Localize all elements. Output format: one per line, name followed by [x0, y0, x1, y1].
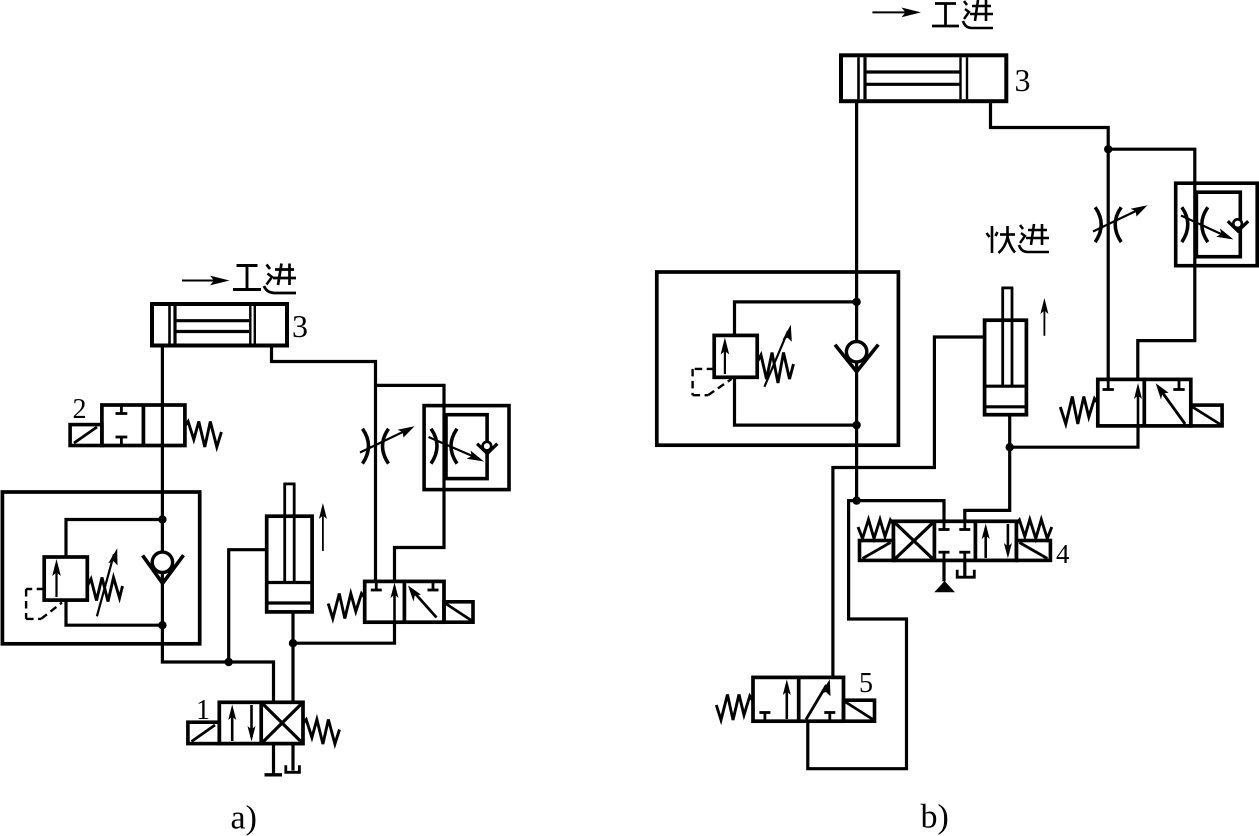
boxed check valve fig b seat: [1228, 221, 1248, 231]
wire: branch to one-way throttle box fig a: [376, 385, 445, 582]
valve 1 crossed X: [261, 702, 303, 743]
valve 2 body: [102, 405, 185, 446]
valve 1 body: [219, 702, 303, 743]
svg-text:3: 3: [1015, 62, 1031, 98]
valve 5 pilot actuator box: [844, 700, 875, 721]
throttle valve fig b arcs: [1095, 207, 1101, 242]
valve 4 right spring: [1016, 520, 1051, 539]
junction dot below small cylinder fig b: [1006, 443, 1014, 451]
relief valve square fig b: [714, 335, 757, 377]
check valve fig b ball: [846, 342, 866, 362]
wire: branch to one-way throttle box fig b: [1108, 149, 1195, 379]
throttle valve fig a arcs: [363, 429, 369, 464]
valve 5 blocked stub left: [764, 713, 767, 722]
wire: relief box down, right to valve 1: [162, 625, 273, 702]
wire: small cylinder A left port: [229, 550, 267, 662]
svg-text:a): a): [231, 800, 257, 836]
wire: small cylinder B left port to valve 5: [833, 337, 985, 677]
wire: valve 2 down to relief box: [161, 446, 164, 520]
junction dot top of loop fig b: [852, 298, 860, 306]
small cylinder fig b body: [985, 320, 1027, 415]
valve 4 left pilot box: [860, 541, 894, 561]
junction dot top of loop fig a: [158, 515, 166, 523]
wire: small cylinder B bottom port: [965, 415, 1010, 522]
pilot valve B blocked stub right: [1178, 379, 1181, 389]
valve 5 body: [753, 677, 844, 721]
svg-text:b): b): [921, 799, 949, 836]
small cylinder fig a rod: [283, 484, 295, 582]
check valve fig a ball: [152, 552, 172, 572]
wire: supply dot around to valve 5 bottom: [808, 501, 907, 769]
cylinder 3 fig a body: [152, 304, 287, 346]
valve 5 crossed arrow right square: [806, 685, 827, 720]
boxed throttle fig a adjust arrow: [429, 437, 478, 458]
wire: cylinder A right port to throttle line: [272, 346, 376, 583]
boxed check valve fig a ball: [483, 442, 492, 451]
svg-text:2: 2: [73, 394, 87, 425]
pilot valve B crossed arrow right square: [1160, 389, 1186, 425]
valve 4 up arrow right square: [984, 528, 987, 558]
cylinder 3 fig a piston right: [249, 306, 251, 344]
label 工 fig b: [932, 4, 959, 27]
relief loop wires fig b: [735, 302, 857, 336]
motion arrow fig a: [322, 510, 324, 551]
label 工 fig a: [233, 266, 261, 290]
relief valve adjust arrow fig a: [97, 554, 114, 616]
pilot valve B body: [1098, 379, 1191, 426]
check valve fig a seat: [143, 555, 184, 583]
valve 4 crossed X left square: [893, 521, 934, 560]
wire: junction right to pilot valve A bottom: [293, 622, 395, 643]
valve 5 spring: [716, 695, 753, 721]
valve 4 exhaust triangle: [942, 560, 945, 581]
pilot valve A blocked stub right: [432, 581, 435, 590]
valve 4 down arrow right square: [1007, 524, 1010, 554]
valve 1 spring: [303, 720, 340, 745]
one-way throttle box fig b inner: [1196, 192, 1240, 257]
pilot valve B pilot actuator box: [1191, 405, 1222, 426]
valve 1 down arrow: [250, 705, 253, 737]
svg-text:5: 5: [859, 668, 873, 699]
valve 4 center blocked stubs: [939, 521, 971, 560]
boxed throttle fig a arcs: [431, 429, 437, 464]
pilot valve A pilot actuator box: [444, 602, 473, 622]
relief loop wires fig a: [66, 520, 162, 558]
valve 4 left spring: [858, 520, 893, 539]
junction dot bottom of loop fig a: [158, 621, 166, 629]
relief assembly box fig b: [657, 272, 899, 445]
check valve fig b seat: [835, 345, 878, 372]
junction dot fig b top right: [1104, 145, 1112, 153]
pilot valve A body: [365, 581, 444, 622]
label 进 fig b: [963, 0, 993, 28]
relief valve square fig a: [44, 557, 87, 600]
pilot valve A crossed arrow right square: [412, 590, 437, 618]
small cylinder fig b rod: [1001, 288, 1013, 386]
valve 1 exhaust right (tank): [291, 744, 294, 771]
valve 1 exhaust left (plugged): [272, 744, 275, 774]
relief valve pilot dashed lines fig a: [26, 589, 62, 619]
small cylinder fig b piston lines: [985, 385, 1027, 388]
pilot valve B spring: [1060, 397, 1098, 425]
relief valve flow arrow fig b: [724, 344, 726, 374]
boxed check valve fig a seat: [477, 444, 497, 454]
one-way throttle box fig a inner: [446, 415, 487, 479]
pilot valve A flow arrow: [393, 587, 396, 622]
valve 4 exhaust tank: [963, 560, 966, 576]
valve 2 lever actuator: [70, 425, 102, 446]
valve 2 spring: [185, 422, 222, 448]
motion arrow fig b: [1043, 305, 1045, 336]
label 快 fig b: [987, 226, 1016, 253]
valve 1 lever actuator: [188, 722, 219, 743]
valve 5 blocked stub right: [828, 713, 831, 722]
throttle valve fig a adjust arrow: [360, 430, 407, 453]
cylinder 3 fig b piston left: [857, 57, 860, 99]
cylinder 3 fig b rod: [867, 70, 960, 73]
label 进 fig b (快进): [1019, 224, 1049, 252]
one-way throttle box fig a outer: [424, 406, 509, 490]
valve 5 up arrow: [785, 684, 788, 719]
pilot valve B blocked stub left: [1107, 379, 1110, 389]
throttle valve fig b adjust arrow: [1093, 209, 1140, 232]
boxed throttle fig b arcs: [1182, 207, 1188, 242]
one-way throttle box fig b outer: [1176, 183, 1258, 266]
svg-text:3: 3: [292, 308, 308, 344]
cylinder 3 fig b piston right: [959, 57, 961, 99]
pilot valve A spring: [328, 594, 365, 619]
junction dot bottom of loop fig b: [852, 421, 860, 429]
valve 1 up arrow: [231, 709, 234, 741]
feed direction arrow (工进) fig b: [872, 8, 921, 18]
relief valve pilot dashed lines fig b: [693, 369, 732, 395]
relief valve spring fig a: [87, 578, 122, 602]
small cylinder fig a body: [267, 516, 312, 612]
junction dot supply fig b: [852, 496, 860, 504]
cylinder 3 fig a rod: [177, 319, 250, 322]
small cylinder fig a piston lines: [267, 581, 312, 584]
wire: cylinder A left port down to valve 2: [161, 346, 164, 406]
pilot valve B flow arrow: [1137, 388, 1140, 426]
feed direction arrow (工进) fig a: [182, 276, 230, 286]
relief valve adjust arrow fig b: [764, 331, 788, 387]
wire: cylinder B right port to throttle line: [991, 101, 1109, 379]
valve 4 squares: [893, 521, 1016, 560]
relief assembly box fig a: [2, 492, 199, 644]
wire: junction to pilot valve B bottom: [1010, 426, 1138, 447]
valve 4 right pilot box: [1016, 541, 1050, 561]
wire: supply dot to valve 4: [857, 501, 944, 522]
svg-text:4: 4: [1056, 539, 1070, 569]
junction dot on supply line fig a: [225, 658, 233, 666]
wire: cylinder B left port down through relief box: [855, 101, 858, 500]
cylinder 3 fig b body: [841, 55, 1006, 101]
label 进 fig a: [264, 264, 296, 294]
junction dot below small cylinder fig a: [289, 639, 297, 647]
cylinder 3 fig a piston left: [168, 306, 171, 344]
wire through check valve fig a: [161, 520, 164, 626]
boxed check valve fig b ball: [1233, 219, 1242, 228]
boxed throttle fig b adjust arrow: [1181, 216, 1227, 237]
valve 2 blocked port stubs: [116, 405, 128, 446]
valve 2 through-line (right position): [161, 405, 164, 446]
svg-text:1: 1: [196, 695, 210, 726]
relief valve flow arrow fig a: [55, 566, 57, 597]
pilot valve A blocked stub left: [375, 581, 378, 590]
relief valve spring fig b: [757, 353, 793, 384]
wire: small cylinder A bottom port: [291, 612, 294, 702]
